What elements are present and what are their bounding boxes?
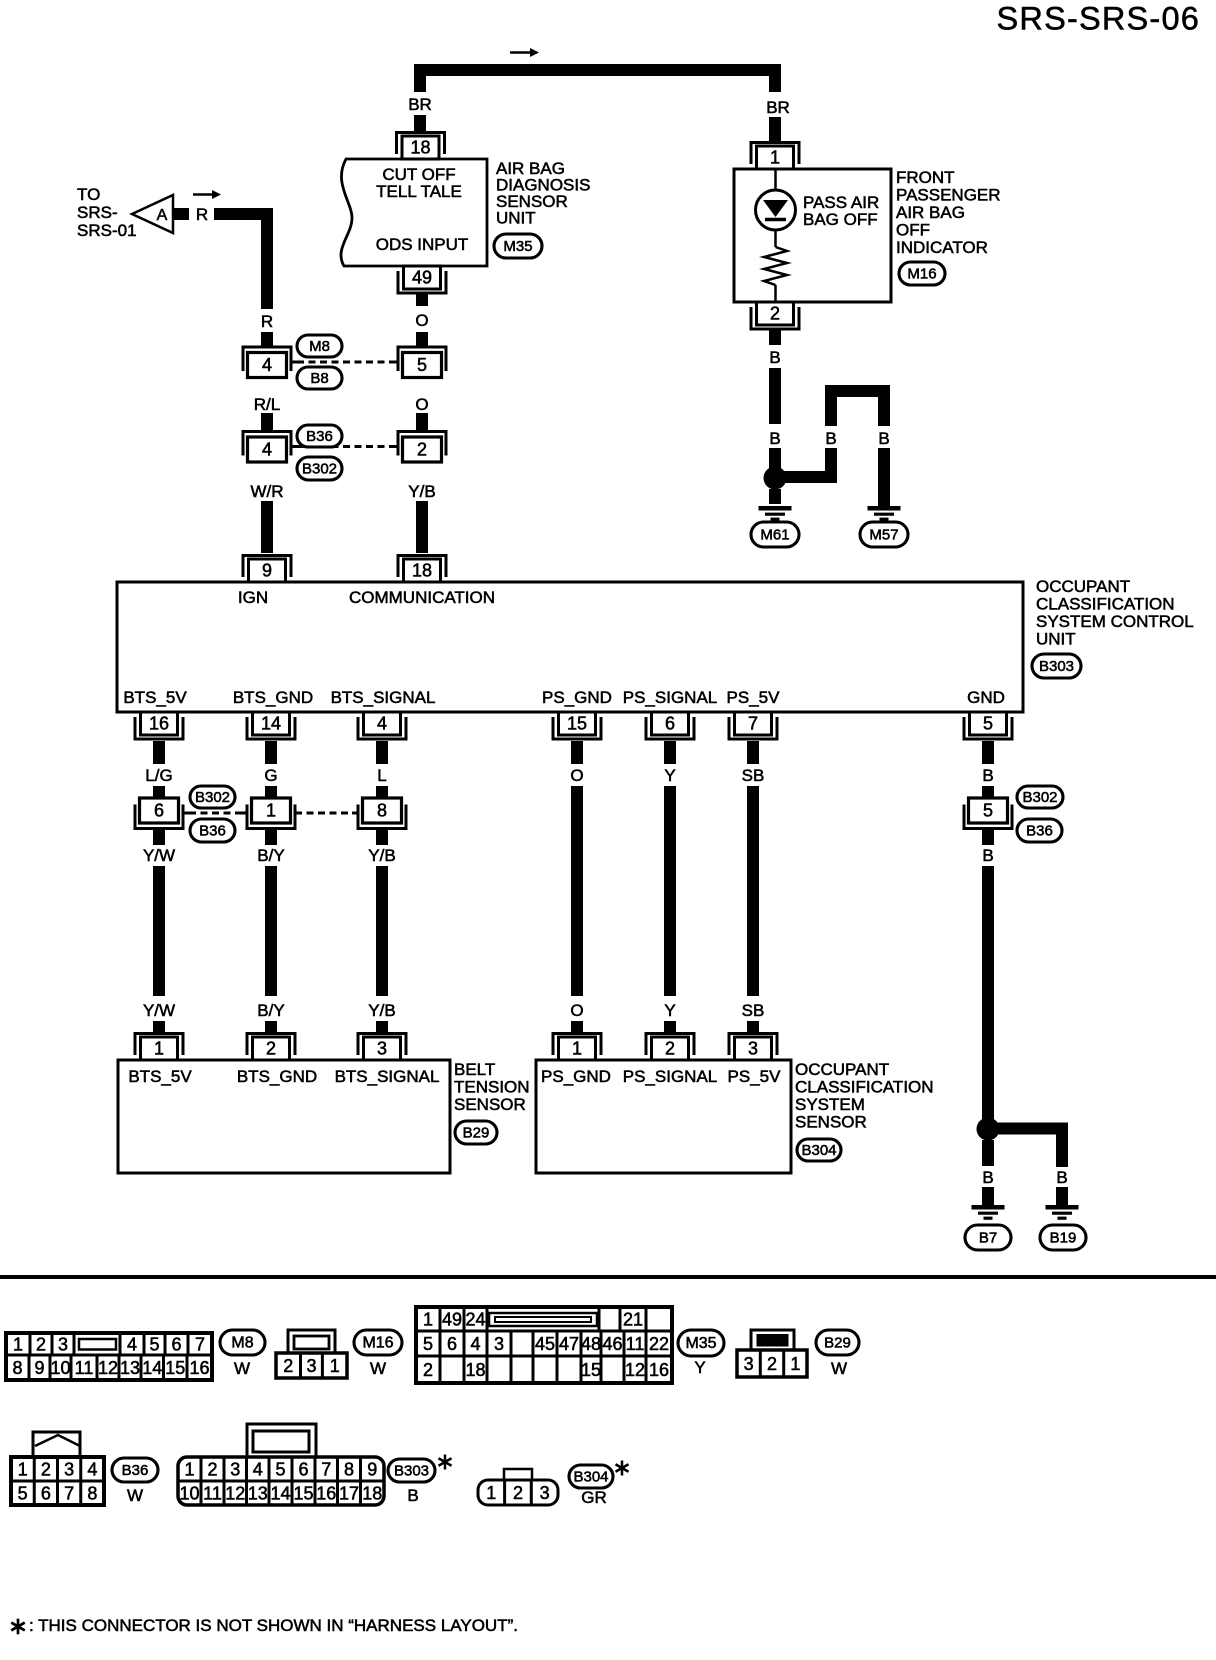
svg-text:BELT: BELT	[454, 1060, 495, 1079]
svg-text:PS_5V: PS_5V	[727, 688, 781, 707]
svg-text:M61: M61	[760, 527, 789, 544]
svg-text:PS_5V: PS_5V	[728, 1067, 782, 1086]
svg-text:A: A	[157, 207, 168, 224]
svg-text:B29: B29	[463, 1125, 490, 1142]
svg-text:8: 8	[87, 1484, 97, 1504]
svg-text:OFF: OFF	[896, 221, 930, 240]
svg-text:1: 1	[18, 1460, 28, 1480]
svg-text:1: 1	[13, 1335, 23, 1355]
svg-text:2: 2	[283, 1356, 293, 1376]
svg-text:Y: Y	[664, 1001, 675, 1020]
svg-text:14: 14	[142, 1358, 162, 1378]
svg-text:R: R	[196, 205, 208, 224]
svg-text:R/L: R/L	[254, 395, 280, 414]
svg-text:12: 12	[225, 1484, 245, 1504]
svg-text:2: 2	[36, 1335, 46, 1355]
svg-text:B: B	[1056, 1168, 1067, 1187]
svg-text:48: 48	[581, 1334, 601, 1354]
svg-text:17: 17	[339, 1484, 359, 1504]
svg-text:B36: B36	[306, 428, 333, 445]
svg-text:IGN: IGN	[238, 588, 268, 607]
svg-text:1: 1	[330, 1356, 340, 1376]
svg-text:4: 4	[470, 1334, 480, 1354]
svg-text:M16: M16	[907, 266, 936, 283]
svg-text:W: W	[234, 1359, 250, 1378]
svg-text:11: 11	[203, 1484, 222, 1504]
svg-text:M8: M8	[309, 338, 330, 355]
svg-text:PS_SIGNAL: PS_SIGNAL	[623, 1067, 718, 1086]
svg-text:O: O	[570, 1001, 583, 1020]
svg-text:B36: B36	[122, 1462, 149, 1479]
svg-text:15: 15	[581, 1360, 601, 1380]
svg-text:1: 1	[266, 801, 276, 821]
svg-text:2: 2	[770, 304, 780, 324]
svg-text:M35: M35	[503, 238, 532, 255]
svg-text:5: 5	[18, 1484, 28, 1504]
svg-text:TELL TALE: TELL TALE	[376, 182, 462, 201]
svg-text:8: 8	[12, 1358, 22, 1378]
svg-text:M8: M8	[231, 1335, 253, 1352]
svg-text:BTS_5V: BTS_5V	[128, 1067, 192, 1086]
svg-text:W: W	[370, 1359, 386, 1378]
svg-text:Y/W: Y/W	[143, 846, 175, 865]
svg-text:5: 5	[149, 1335, 159, 1355]
svg-text:16: 16	[316, 1484, 336, 1504]
svg-text:6: 6	[298, 1460, 308, 1480]
svg-text:6: 6	[665, 714, 675, 734]
svg-text:12: 12	[625, 1360, 645, 1380]
svg-text:4: 4	[262, 440, 272, 460]
svg-text:5: 5	[423, 1334, 433, 1354]
svg-text:W: W	[831, 1359, 847, 1378]
svg-text:INDICATOR: INDICATOR	[896, 238, 988, 257]
svg-text:7: 7	[64, 1484, 74, 1504]
svg-text:B: B	[982, 846, 993, 865]
svg-text:45: 45	[535, 1334, 555, 1354]
svg-text:M35: M35	[685, 1335, 716, 1352]
svg-text:1: 1	[423, 1310, 433, 1330]
svg-text:9: 9	[367, 1460, 377, 1480]
svg-text:SRS-: SRS-	[77, 203, 118, 222]
svg-text:B29: B29	[824, 1335, 851, 1352]
svg-text:G: G	[264, 766, 277, 785]
svg-text:Y/W: Y/W	[143, 1001, 175, 1020]
svg-text:18: 18	[410, 138, 430, 158]
svg-text:B7: B7	[979, 1230, 997, 1247]
svg-text:3: 3	[230, 1460, 240, 1480]
svg-text:GND: GND	[967, 688, 1005, 707]
svg-text:B: B	[407, 1486, 418, 1505]
svg-text:8: 8	[377, 801, 387, 821]
svg-text:49: 49	[412, 268, 432, 288]
svg-text:COMMUNICATION: COMMUNICATION	[349, 588, 495, 607]
svg-text:B: B	[769, 348, 780, 367]
svg-text:UNIT: UNIT	[496, 209, 536, 228]
svg-text:2: 2	[513, 1483, 523, 1503]
svg-text:B302: B302	[195, 789, 230, 806]
svg-text:Y/B: Y/B	[408, 482, 435, 501]
svg-text:BTS_GND: BTS_GND	[237, 1067, 317, 1086]
svg-text:W/R: W/R	[250, 482, 283, 501]
svg-text:7: 7	[748, 714, 758, 734]
svg-text:1: 1	[486, 1483, 496, 1503]
svg-text:2: 2	[417, 440, 427, 460]
svg-text:4: 4	[253, 1460, 263, 1480]
svg-text:6: 6	[154, 801, 164, 821]
svg-text:2: 2	[423, 1360, 433, 1380]
svg-text:18: 18	[465, 1360, 485, 1380]
svg-text:B302: B302	[302, 461, 337, 478]
svg-text:2: 2	[665, 1039, 675, 1059]
svg-text:: THIS CONNECTOR IS NOT SHOWN: : THIS CONNECTOR IS NOT SHOWN IN “HARNES…	[29, 1616, 518, 1635]
svg-text:PS_SIGNAL: PS_SIGNAL	[623, 688, 718, 707]
svg-text:5: 5	[275, 1460, 285, 1480]
svg-text:B: B	[769, 429, 780, 448]
svg-text:15: 15	[567, 714, 587, 734]
svg-text:TENSION: TENSION	[454, 1078, 530, 1097]
svg-text:B/Y: B/Y	[257, 1001, 284, 1020]
svg-text:ODS INPUT: ODS INPUT	[376, 235, 469, 254]
svg-text:PS_GND: PS_GND	[541, 1067, 611, 1086]
svg-text:O: O	[570, 766, 583, 785]
svg-text:46: 46	[602, 1334, 622, 1354]
svg-text:3: 3	[377, 1039, 387, 1059]
svg-text:4: 4	[87, 1460, 97, 1480]
svg-text:2: 2	[767, 1354, 777, 1374]
svg-text:SRS-SRS-06: SRS-SRS-06	[997, 1, 1200, 37]
svg-text:UNIT: UNIT	[1036, 630, 1076, 649]
svg-text:B303: B303	[1039, 658, 1074, 675]
svg-text:R: R	[261, 312, 273, 331]
svg-text:L: L	[377, 766, 386, 785]
svg-text:47: 47	[559, 1334, 579, 1354]
svg-text:FRONT: FRONT	[896, 168, 955, 187]
svg-text:B304: B304	[801, 1142, 836, 1159]
svg-text:2: 2	[41, 1460, 51, 1480]
svg-text:24: 24	[465, 1310, 485, 1330]
svg-text:PASSENGER: PASSENGER	[896, 186, 1001, 205]
svg-text:7: 7	[321, 1460, 331, 1480]
svg-text:22: 22	[649, 1334, 669, 1354]
svg-text:SENSOR: SENSOR	[454, 1095, 526, 1114]
svg-text:1: 1	[790, 1354, 800, 1374]
svg-text:10: 10	[179, 1484, 199, 1504]
svg-text:L/G: L/G	[145, 766, 172, 785]
svg-text:BR: BR	[766, 98, 790, 117]
svg-text:B304: B304	[573, 1469, 608, 1486]
svg-text:GR: GR	[581, 1488, 607, 1507]
svg-text:13: 13	[120, 1358, 140, 1378]
svg-text:18: 18	[412, 561, 432, 581]
svg-text:Y/B: Y/B	[368, 1001, 395, 1020]
svg-text:SYSTEM CONTROL: SYSTEM CONTROL	[1036, 612, 1194, 631]
svg-text:14: 14	[270, 1484, 290, 1504]
svg-text:W: W	[127, 1486, 143, 1505]
svg-text:B302: B302	[1022, 789, 1057, 806]
svg-text:TO: TO	[77, 185, 100, 204]
svg-text:1: 1	[572, 1039, 582, 1059]
svg-text:3: 3	[58, 1335, 68, 1355]
svg-text:BTS_GND: BTS_GND	[233, 688, 313, 707]
svg-text:4: 4	[127, 1335, 137, 1355]
svg-text:5: 5	[983, 714, 993, 734]
svg-text:B36: B36	[1026, 823, 1053, 840]
svg-text:18: 18	[362, 1484, 382, 1504]
svg-text:M57: M57	[869, 527, 898, 544]
svg-text:Y: Y	[694, 1358, 705, 1377]
svg-text:CLASSIFICATION: CLASSIFICATION	[795, 1078, 934, 1097]
svg-text:SYSTEM: SYSTEM	[795, 1095, 865, 1114]
svg-text:B8: B8	[310, 370, 328, 387]
svg-text:BTS_SIGNAL: BTS_SIGNAL	[335, 1067, 440, 1086]
svg-text:3: 3	[540, 1483, 550, 1503]
svg-text:O: O	[415, 395, 428, 414]
svg-text:3: 3	[744, 1354, 754, 1374]
svg-text:21: 21	[623, 1310, 643, 1330]
svg-text:CLASSIFICATION: CLASSIFICATION	[1036, 595, 1175, 614]
svg-text:BAG OFF: BAG OFF	[803, 210, 878, 229]
svg-text:B: B	[982, 766, 993, 785]
svg-text:B: B	[825, 429, 836, 448]
svg-text:3: 3	[494, 1334, 504, 1354]
svg-text:5: 5	[417, 355, 427, 375]
svg-text:9: 9	[262, 561, 272, 581]
svg-text:3: 3	[64, 1460, 74, 1480]
svg-text:3: 3	[306, 1356, 316, 1376]
svg-text:4: 4	[377, 714, 387, 734]
svg-text:10: 10	[50, 1358, 70, 1378]
svg-text:14: 14	[261, 714, 281, 734]
svg-text:15: 15	[165, 1358, 185, 1378]
svg-text:13: 13	[248, 1484, 268, 1504]
svg-text:BTS_5V: BTS_5V	[123, 688, 187, 707]
svg-text:B/Y: B/Y	[257, 846, 284, 865]
svg-text:6: 6	[171, 1335, 181, 1355]
svg-text:16: 16	[149, 714, 169, 734]
svg-text:12: 12	[98, 1358, 118, 1378]
svg-text:16: 16	[649, 1360, 669, 1380]
svg-text:8: 8	[344, 1460, 354, 1480]
svg-text:BR: BR	[408, 95, 432, 114]
svg-text:1: 1	[770, 148, 780, 168]
svg-text:SRS-01: SRS-01	[77, 221, 137, 240]
svg-text:5: 5	[983, 801, 993, 821]
svg-text:15: 15	[293, 1484, 313, 1504]
svg-text:B19: B19	[1050, 1230, 1077, 1247]
svg-text:49: 49	[442, 1310, 462, 1330]
svg-text:OCCUPANT: OCCUPANT	[1036, 577, 1130, 596]
svg-text:16: 16	[189, 1358, 209, 1378]
svg-text:B36: B36	[199, 823, 226, 840]
svg-text:AIR BAG: AIR BAG	[896, 203, 965, 222]
svg-text:BTS_SIGNAL: BTS_SIGNAL	[331, 688, 436, 707]
svg-text:PS_GND: PS_GND	[542, 688, 612, 707]
svg-text:B: B	[878, 429, 889, 448]
svg-text:O: O	[415, 311, 428, 330]
svg-text:2: 2	[207, 1460, 217, 1480]
svg-text:SB: SB	[742, 1001, 765, 1020]
svg-text:6: 6	[41, 1484, 51, 1504]
svg-text:1: 1	[184, 1460, 194, 1480]
svg-text:2: 2	[266, 1039, 276, 1059]
svg-text:OCCUPANT: OCCUPANT	[795, 1060, 889, 1079]
svg-text:M16: M16	[362, 1335, 393, 1352]
svg-text:Y: Y	[664, 766, 675, 785]
svg-text:3: 3	[748, 1039, 758, 1059]
svg-text:B: B	[982, 1168, 993, 1187]
svg-text:11: 11	[626, 1334, 645, 1354]
svg-text:11: 11	[75, 1358, 94, 1378]
svg-text:SB: SB	[742, 766, 765, 785]
svg-text:Y/B: Y/B	[368, 846, 395, 865]
svg-text:6: 6	[447, 1334, 457, 1354]
svg-text:7: 7	[195, 1335, 205, 1355]
svg-text:9: 9	[34, 1358, 44, 1378]
svg-text:4: 4	[262, 355, 272, 375]
svg-text:1: 1	[154, 1039, 164, 1059]
svg-text:SENSOR: SENSOR	[795, 1113, 867, 1132]
svg-text:B303: B303	[394, 1463, 429, 1480]
